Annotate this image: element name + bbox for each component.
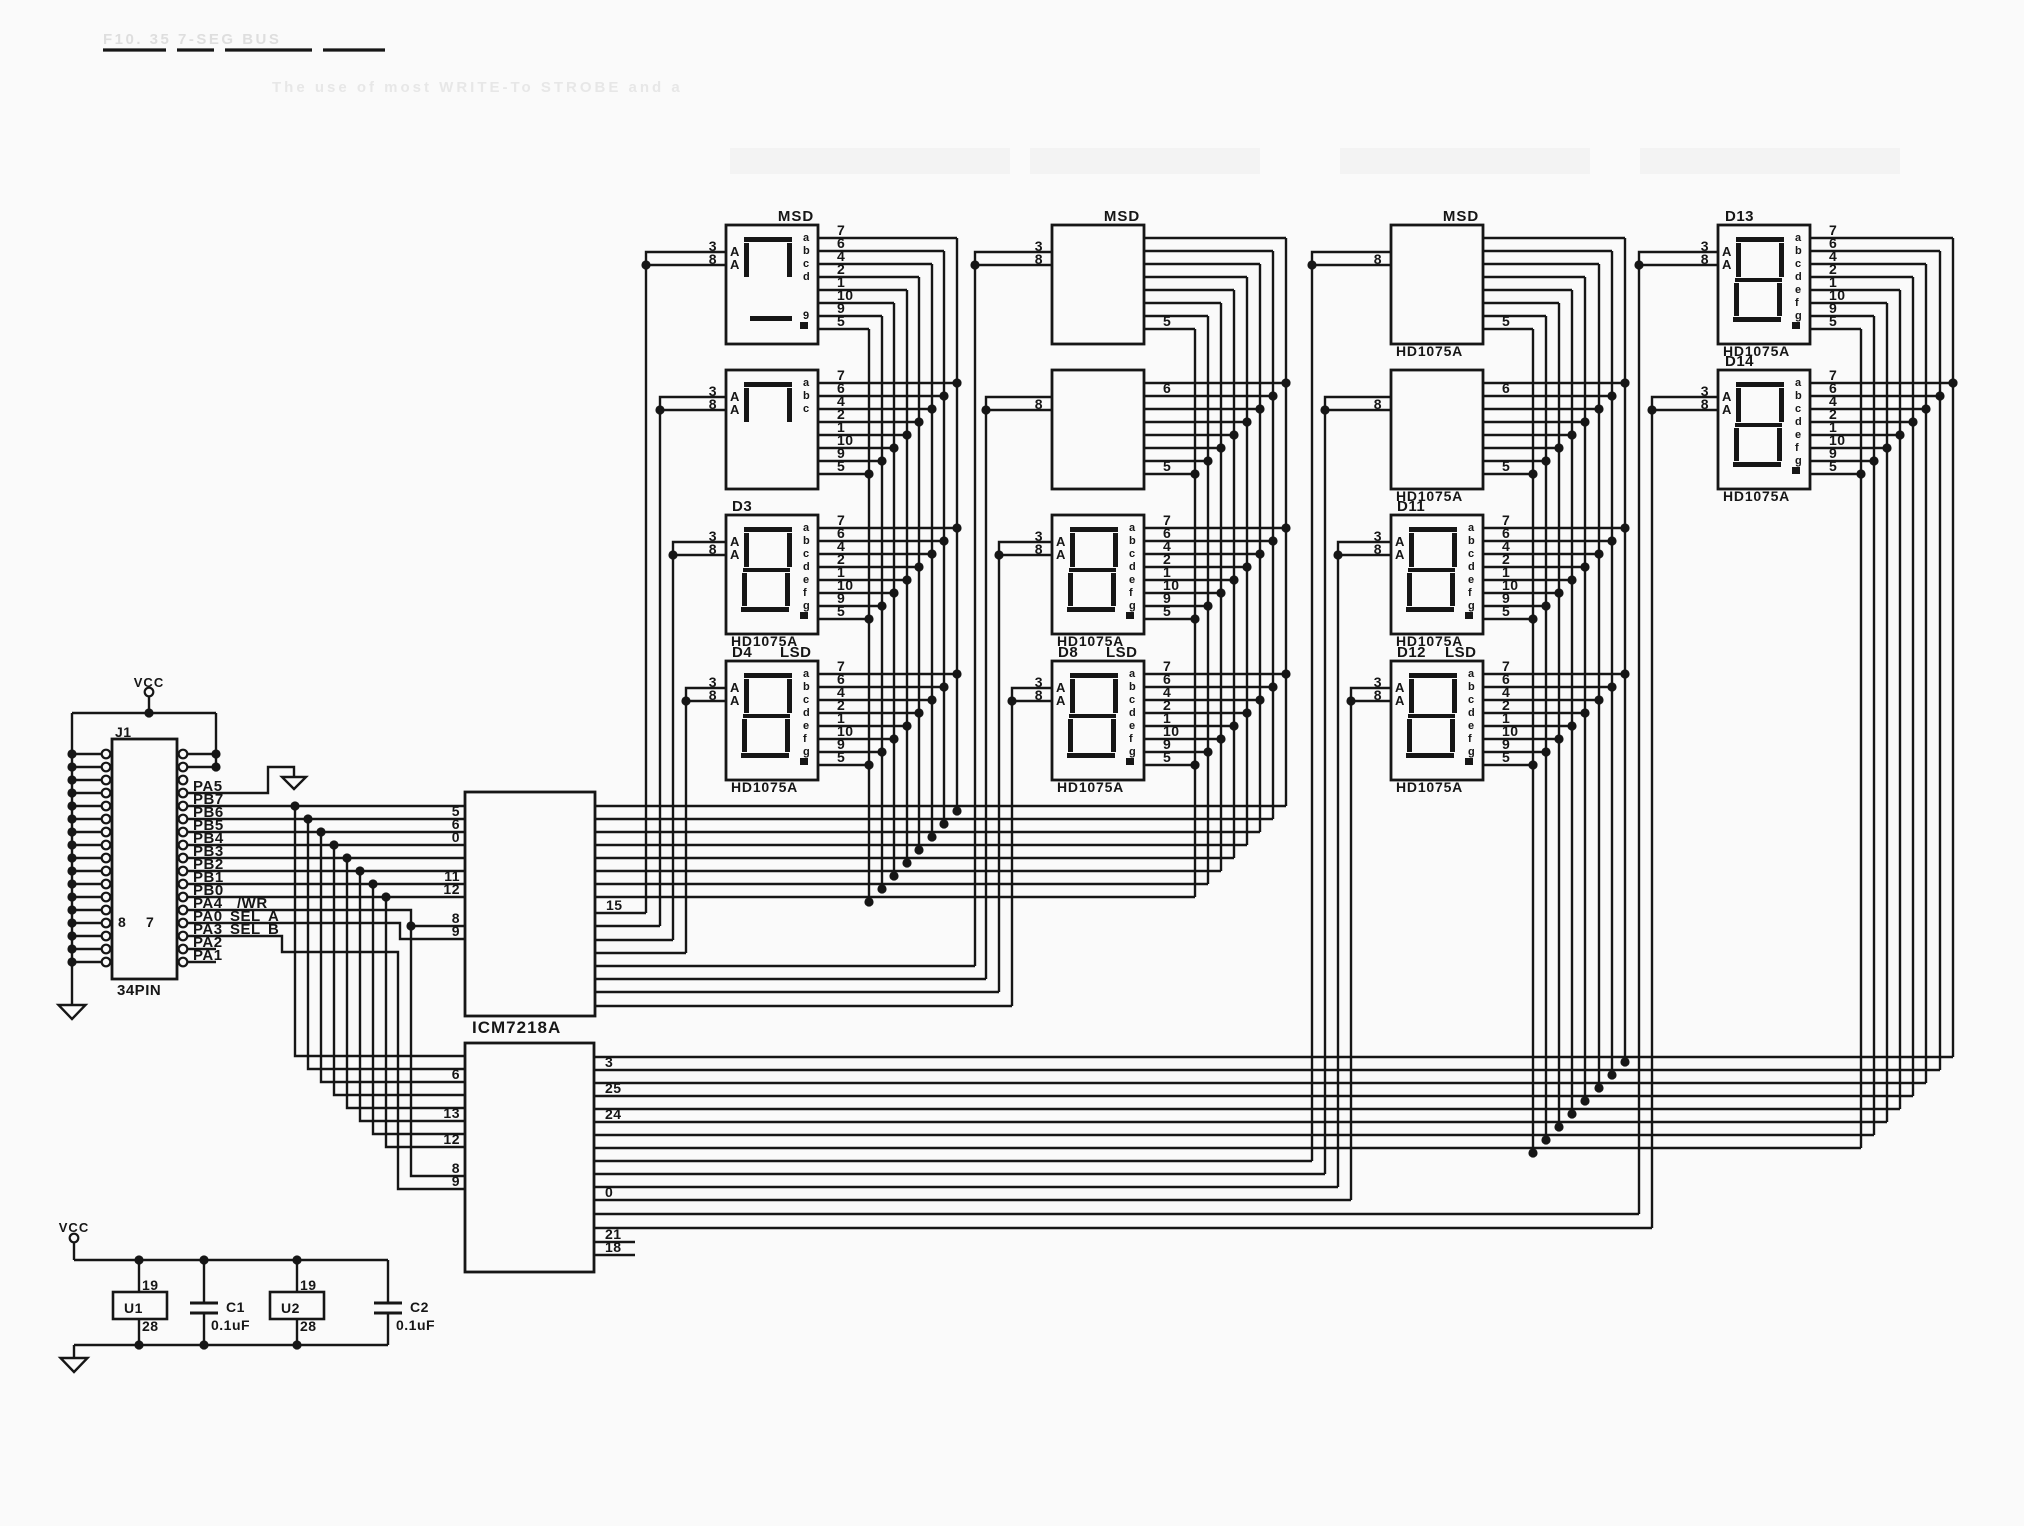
junction PB5 branch to U2 [316,827,325,836]
wire D8 LSD segment . to bus [1144,764,1195,766]
display D14 decimal point [1792,467,1800,474]
wire D11 segment b to bus [1483,540,1612,542]
svg-text:5: 5 [1163,603,1171,619]
svg-text:5: 5 [837,749,845,765]
junction digit2 column1 segment a [952,378,961,387]
wire segment bus c column3 [1598,264,1600,1090]
svg-text:A: A [730,693,740,708]
display D8 LSD (HD1075A 7-segment) outline [1052,661,1144,780]
wire segment bus g column1 [881,316,883,891]
IC U2 power stub box [270,1292,324,1319]
wire D8 LSD segment a to bus [1144,673,1286,675]
svg-text:5: 5 [1829,458,1837,474]
wire D11 segment c to bus [1483,553,1599,555]
display digit2 column2 (HD1075A 7-segment) outline [1052,370,1144,489]
junction digit2 column2 segment d [1242,417,1251,426]
display D3 lit segments [744,527,792,532]
svg-text:c: c [1795,403,1802,415]
wire MSD column1 segment a to bus [818,237,957,239]
svg-text:b: b [803,245,810,257]
junction D3 segment g [877,601,886,610]
wire D7 column2 anode pin 3 [999,542,1052,555]
wire digit2 column3 segment c to bus [1483,408,1599,410]
junction PB7 branch to U2 [290,801,299,810]
junction digit2 column2 segment e [1229,430,1238,439]
wire D12 LSD segment . to bus [1483,764,1533,766]
svg-text:5: 5 [837,603,845,619]
wire D4 LSD segment d to bus [818,712,919,714]
IC U1 power stub box [113,1292,167,1319]
wire U2 segment output b bus row [594,1069,1940,1071]
svg-text:b: b [803,390,810,402]
wire D8 LSD segment b to bus [1144,686,1273,688]
wire digit2 column3 segment . to bus [1483,473,1533,475]
junction D13 anode node [1634,260,1643,269]
wire PB6 vertical branch down to U2 [308,819,465,1069]
svg-text:c: c [803,258,810,270]
wire D8 LSD segment e to bus [1144,725,1234,727]
junction D14 segment a [1948,378,1957,387]
wire segment bus f column2 [1220,303,1222,871]
wire digit2 column1 segment g to bus [818,460,882,462]
wire digit2 column3 segment d to bus [1483,421,1585,423]
junction digit2 column3 segment g [1541,456,1550,465]
junction PB2 branch to U2 [355,866,364,875]
wire D8 LSD segment c to bus [1144,699,1260,701]
junction segment b at column1 bus [939,819,948,828]
junction D12 LSD segment c [1594,695,1603,704]
wire PA0 SEL A to U1 pin 9 [187,923,465,939]
wire D4 LSD segment b to bus [818,686,944,688]
wire D12 LSD anode pin 8 [1351,700,1391,702]
display digit2 column3 (HD1075A 7-segment) outline [1391,370,1483,489]
svg-text:c: c [1468,548,1475,560]
junction segment g at column1 bus [877,884,886,893]
junction D7 column2 segment f [1216,588,1225,597]
svg-text:d: d [803,707,810,719]
svg-text:g: g [1468,746,1475,758]
svg-text:a: a [1795,232,1802,244]
junction D7 column2 segment c [1255,549,1264,558]
display D14 (HD1075A 7-segment) outline [1718,370,1810,489]
display MSD column3 (HD1075A 7-segment) outline [1391,225,1483,344]
wire MSD column1 segment f to bus [818,302,894,304]
svg-text:6: 6 [1502,380,1510,396]
wire digit2 column1 segment b to bus [818,395,944,397]
wire D3 segment e to bus [818,579,907,581]
wire U2 digit output 6 to column4 display D14 [594,1227,1652,1229]
junction D14 segment e [1895,430,1904,439]
wire D11 anode pin 8 [1338,554,1391,556]
wire U2 segment output . bus row [594,1147,1861,1149]
wire MSD column2 segment . to bus [1144,328,1195,330]
wire U1 segment output d bus row [595,844,1247,846]
wire segment bus b column4 [1939,251,1941,1070]
svg-text:A: A [1056,693,1066,708]
svg-text:The use of most WRITE-To STRO: The use of most WRITE-To STROBE and a [272,79,683,96]
display D12 LSD decimal point [1465,758,1473,765]
junction digit2 column1 segment b [939,391,948,400]
svg-text:5: 5 [1163,749,1171,765]
junction digit2 column3 segment c [1594,404,1603,413]
wire D4 LSD segment e to bus [818,725,907,727]
wire MSD column1 segment e to bus [818,289,907,291]
wire D4 LSD segment a to bus [818,673,957,675]
junction D4 LSD segment c [927,695,936,704]
wire U2 segment output c bus row [594,1082,1926,1084]
svg-text:U2: U2 [281,1300,300,1316]
svg-text:D13: D13 [1725,208,1754,225]
svg-text:28: 28 [142,1318,159,1334]
wire D8 LSD segment f to bus [1144,738,1221,740]
svg-text:5: 5 [1163,313,1171,329]
wire digit2 column1 segment f to bus [818,447,894,449]
wire digit2 column1 segment a to bus [818,382,957,384]
wire D14 segment b to bus [1810,395,1940,397]
junction digit2 column1 segment . [864,469,873,478]
wire D13 anode pin 3 [1639,252,1718,265]
wire PB3 vertical branch down to U2 [347,858,465,1108]
svg-text:c: c [803,548,810,560]
svg-text:5: 5 [1502,749,1510,765]
svg-text:f: f [803,587,807,599]
svg-text:c: c [1468,694,1475,706]
wire digit2 column3 segment a to bus [1483,382,1625,384]
svg-text:a: a [803,668,810,680]
wire U1 segment output b bus row [595,818,1273,820]
junction digit2 column2 segment c [1255,404,1264,413]
svg-text:D4: D4 [732,644,752,661]
svg-text:ICM7218A: ICM7218A [472,1018,561,1037]
junction D12 LSD segment g [1541,747,1550,756]
junction segment . at column1 bus [864,897,873,906]
wire D14 anode pin 3 [1652,397,1718,410]
junction digit2 column2 segment . [1190,469,1199,478]
wire MSD column3 anode pin 3 [1312,252,1391,265]
junction digit2 column2 segment f [1216,443,1225,452]
wire D3 segment g to bus [818,605,882,607]
svg-text:e: e [1468,720,1475,732]
wire MSD column3 segment a to bus [1483,237,1625,239]
junction D7 column2 segment b [1268,536,1277,545]
svg-text:A: A [730,547,740,562]
junction segment g at column3 bus [1541,1135,1550,1144]
wire MSD column1 segment d to bus [818,276,919,278]
wire MSD column2 segment a to bus [1144,237,1286,239]
svg-text:d: d [803,271,810,283]
junction PB3 branch to U2 [342,853,351,862]
capacitor C2 top lead [387,1260,389,1303]
svg-text:HD1075A: HD1075A [731,779,798,795]
svg-text:MSD: MSD [778,208,814,225]
wire PB4 vertical branch down to U2 [334,845,465,1095]
wire D7 column2 segment f to bus [1144,592,1221,594]
wire PA4 /WR to U1 pin 8 [187,910,465,926]
junction U1 to ground rail [134,1340,143,1349]
junction PB0 branch to U2 [381,892,390,901]
wire D12 LSD anode pin 3 [1351,688,1391,701]
wire segment bus f column1 [893,303,895,878]
svg-text:b: b [1129,681,1136,693]
wire D7 column2 anode pin 8 [999,554,1052,556]
capacitor C1 top lead [203,1260,205,1303]
junction D7 column2 segment e [1229,575,1238,584]
wire MSD column3 anode pin 8 [1312,264,1391,266]
svg-text:b: b [803,681,810,693]
wire PB2 from J1 to ICM7218A U1 [187,870,465,872]
wire D7 column2 segment a to bus [1144,527,1286,529]
wire U2 digit output 1 to column3 display [594,1160,1312,1162]
wire U1 supply pin 19 [138,1260,140,1292]
wire segment bus c column1 [931,264,933,839]
junction D11 segment e [1567,575,1576,584]
wire segment bus f column3 [1558,303,1560,1129]
svg-text:d: d [1129,707,1136,719]
svg-text:0: 0 [452,829,460,845]
display D8 LSD lit segments [1070,673,1118,678]
wire U2 segment output e bus row [594,1108,1900,1110]
wire segment bus g column2 [1207,316,1209,884]
svg-text:d: d [1468,561,1475,573]
wire D4 LSD segment c to bus [818,699,932,701]
junction D11 segment d [1580,562,1589,571]
display D7 column2 (HD1075A 7-segment) outline [1052,515,1144,634]
junction D3 segment f [889,588,898,597]
wire U2 digit output 5 to column4 display D13 [594,1213,1639,1215]
svg-text:5: 5 [837,458,845,474]
wire MSD column2 anode pin 3 [975,252,1052,265]
wire digit2 column2 segment b to bus [1144,395,1273,397]
wire PA1 stub [187,961,216,963]
svg-text:HD1075A: HD1075A [1723,488,1790,504]
svg-text:34PIN: 34PIN [117,982,161,999]
wire /WR branch down to U2 pin 8 [411,926,465,1176]
junction D12 LSD segment f [1554,734,1563,743]
junction D4 LSD anode node [681,696,690,705]
svg-text:e: e [1795,429,1802,441]
wire U2 supply pin 19 [296,1260,298,1292]
capacitor C1 bottom lead [203,1313,205,1345]
junction D4 LSD segment . [864,760,873,769]
wire D13 segment g to bus [1810,315,1874,317]
wire MSD column3 segment . to bus [1483,328,1533,330]
junction digit2 column2 segment b [1268,391,1277,400]
wire U1 segment output f bus row [595,870,1221,872]
wire digit select vertical column2 row1 [974,265,976,966]
svg-text:f: f [803,733,807,745]
wire U2 segment output d bus row [594,1095,1913,1097]
svg-text:D8: D8 [1058,644,1078,661]
wire U2 unused digit pin 21 stub [594,1241,635,1243]
wire D14 segment d to bus [1810,421,1913,423]
svg-text:19: 19 [300,1277,317,1293]
svg-text:19: 19 [142,1277,159,1293]
junction digit2 column1 segment d [914,417,923,426]
wire digit select vertical column1 row4 [685,701,687,953]
svg-text:f: f [1129,587,1133,599]
junction D4 LSD segment a [952,669,961,678]
svg-text:g: g [1129,746,1136,758]
svg-text:13: 13 [443,1105,460,1121]
svg-text:0.1uF: 0.1uF [396,1317,435,1333]
wire D12 LSD segment b to bus [1483,686,1612,688]
wire MSD column3 segment b to bus [1483,250,1612,252]
wire digit2 column2 segment d to bus [1144,421,1247,423]
wire D11 segment f to bus [1483,592,1559,594]
wire digit select vertical column1 row1 [645,265,647,913]
svg-text:MSD: MSD [1104,208,1140,225]
junction D8 LSD segment b [1268,682,1277,691]
svg-text:f: f [1468,587,1472,599]
wire MSD column2 segment c to bus [1144,263,1260,265]
svg-text:C2: C2 [410,1299,429,1315]
wire PB6 from J1 to ICM7218A U1 [187,818,465,820]
wire MSD column3 segment f to bus [1483,302,1559,304]
svg-text:a: a [803,377,810,389]
wire D3 segment b to bus [818,540,944,542]
wire digit select vertical column3 row4 [1350,701,1352,1200]
wire D14 segment c to bus [1810,408,1926,410]
wire D8 LSD segment g to bus [1144,751,1208,753]
wire D12 LSD segment c to bus [1483,699,1599,701]
display D13 decimal point [1792,322,1800,329]
wire PB7 vertical branch down to U2 [295,806,465,1056]
wire U1 segment output c bus row [595,831,1260,833]
junction D14 segment b [1935,391,1944,400]
wire MSD column2 anode pin 8 [975,264,1052,266]
junction segment d at column1 bus [914,845,923,854]
wire U2 digit output 4 to column3 display [594,1199,1351,1201]
wire segment bus . column1 [868,329,870,904]
junction digit2 column2 anode node [981,405,990,414]
svg-text:5: 5 [837,313,845,329]
wire MSD column1 segment . to bus [818,328,869,330]
wire VCC rail bottom [74,1259,388,1261]
wire MSD column2 segment e to bus [1144,289,1234,291]
svg-text:5: 5 [1829,313,1837,329]
junction segment e at column3 bus [1567,1109,1576,1118]
wire digit2 column2 segment e to bus [1144,434,1234,436]
junction PB1 branch to U2 [368,879,377,888]
display D8 LSD decimal point [1126,758,1134,765]
wire segment bus a column2 [1285,238,1287,806]
wire digit select vertical column4 row1 [1638,265,1640,1214]
junction D14 segment g [1869,456,1878,465]
wire segment bus b column2 [1272,251,1274,819]
svg-text:c: c [1129,694,1136,706]
wire U1 segment output . bus row [595,896,1195,898]
wire segment bus d column3 [1584,277,1586,1103]
wire PA2 stub [187,948,216,950]
junction digit2 column2 segment a [1281,378,1290,387]
wire digit2 column1 anode pin 3 [660,397,726,410]
wire segment bus . column2 [1194,329,1196,897]
wire segment bus . column3 [1532,329,1534,1155]
wire U1 digit output 7 to column2 display [595,991,999,993]
wire D14 segment e to bus [1810,434,1900,436]
svg-text:0.1uF: 0.1uF [211,1317,250,1333]
junction MSD column3 anode node [1307,260,1316,269]
svg-text:LSD: LSD [1445,644,1477,661]
display D3 (HD1075A 7-segment) outline [726,515,818,634]
wire U2 unused digit pin 18 stub [594,1254,635,1256]
svg-text:15: 15 [606,897,623,913]
display D4 LSD (HD1075A 7-segment) outline [726,661,818,780]
junction segment f at column1 bus [889,871,898,880]
junction D7 column2 segment a [1281,523,1290,532]
display D7 column2 lit segments [1070,527,1118,532]
display D11 decimal point [1465,612,1473,619]
display D4 LSD lit segments [744,673,792,678]
svg-text:5: 5 [1502,313,1510,329]
wire segment bus a column1 [956,238,958,813]
wire MSD column2 segment g to bus [1144,315,1208,317]
wire U1 digit output 5 to column2 display [595,965,975,967]
junction D4 LSD segment b [939,682,948,691]
svg-text:e: e [803,720,810,732]
junction D11 segment . [1528,614,1537,623]
display D3 decimal point [800,612,808,619]
svg-text:g: g [1468,600,1475,612]
junction D3 segment . [864,614,873,623]
display D7 column2 decimal point [1126,612,1134,619]
wire D8 LSD segment d to bus [1144,712,1247,714]
junction D8 LSD segment g [1203,747,1212,756]
svg-text:A: A [1722,257,1732,272]
wire D3 segment c to bus [818,553,932,555]
junction segment d at column3 bus [1580,1096,1589,1105]
wire MSD column3 segment d to bus [1483,276,1585,278]
svg-text:d: d [1795,416,1802,428]
junction digit2 column3 segment a [1620,378,1629,387]
wire ground rail drop [73,1345,75,1358]
wire D11 anode pin 3 [1338,542,1391,555]
svg-text:c: c [1129,548,1136,560]
svg-text:J1: J1 [115,724,132,740]
svg-text:e: e [1129,574,1136,586]
wire U1 digit output 3 to column1 display [595,939,673,941]
wire D14 segment g to bus [1810,460,1874,462]
wire D12 LSD segment g to bus [1483,751,1546,753]
wire D13 segment d to bus [1810,276,1913,278]
junction D11 segment g [1541,601,1550,610]
junction D7 column2 segment . [1190,614,1199,623]
display D11 lit segments [1409,527,1457,532]
junction digit2 column1 segment g [877,456,886,465]
IC U2 display driver outline [465,1043,594,1272]
wire D3 segment . to bus [818,618,869,620]
svg-text:9: 9 [452,1173,460,1189]
svg-text:A: A [1395,547,1405,562]
wire digit2 column3 segment b to bus [1483,395,1612,397]
wire D3 anode pin 3 [673,542,726,555]
svg-text:b: b [803,535,810,547]
junction VCC pin row 2 [211,762,220,771]
junction digit2 column3 segment d [1580,417,1589,426]
wire digit select vertical column1 row3 [672,555,674,940]
wire MSD column2 segment f to bus [1144,302,1221,304]
wire D13 segment a to bus [1810,237,1953,239]
wire digit select vertical column2 row2 [985,410,987,979]
svg-text:e: e [1468,574,1475,586]
svg-text:U1: U1 [124,1300,143,1316]
wire digit2 column2 segment c to bus [1144,408,1260,410]
svg-text:MSD: MSD [1443,208,1479,225]
wire MSD column1 anode pin 8 [646,264,726,266]
wire PB4 from J1 to ICM7218A U1 [187,844,465,846]
svg-text:c: c [1795,258,1802,270]
junction D3 anode node [668,550,677,559]
